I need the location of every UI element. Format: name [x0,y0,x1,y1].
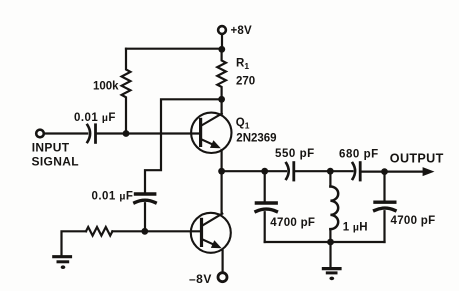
capacitor 0.01uF lower (curved bottom plate) [135,200,155,202]
wire ground corner to resistor [62,231,87,256]
svg-text:+8V: +8V [231,25,253,37]
svg-text:0.01 µF: 0.01 µF [92,190,134,202]
svg-text:SIGNAL: SIGNAL [32,154,79,168]
ground symbol left (middle bar) [58,260,68,263]
transistor Q2 (circle) [191,213,231,253]
node 4700pF right junction [381,168,388,175]
capacitor 680pF (straight plate) [359,163,362,180]
wire 4700pF left bottom lead [264,212,266,242]
node inductor top junction [327,168,334,175]
svg-text:OUTPUT: OUTPUT [390,152,444,166]
svg-text:INPUT: INPUT [32,140,70,154]
wire Q1 emitter down to output node [221,150,223,171]
bottom rail [265,241,385,243]
svg-text:550 pF: 550 pF [275,148,315,160]
node Q1 emitter / output junction [218,168,225,175]
Q2 collector diagonal [202,214,223,226]
svg-text:1 µH: 1 µH [343,222,368,234]
wire bottom node to ground [329,242,331,268]
node 4700pF left junction [261,168,268,175]
resistor R1 270 (zigzag) [217,49,226,99]
ground symbol bottom (middle bar) [327,271,336,274]
feedback wire from collector node to lower 0.01uF cap [145,99,222,192]
svg-text:0.01 µF: 0.01 µF [74,112,116,124]
OUTPUT arrowhead [423,167,435,176]
capacitor C1 0.01uF (straight plate) [94,125,97,143]
wire 4700pF right top lead [383,172,385,201]
-8V terminal [218,273,227,282]
wire Q1 collector [221,99,223,114]
Q1 base bar [199,119,202,145]
wire +8V terminal down to top rail node [221,34,223,49]
svg-text:100k: 100k [93,80,119,92]
transistor Q1 2N2369 (circle) [191,113,231,153]
Q1 collector diagonal [201,114,222,126]
node Q2 base junction [141,228,148,235]
wire Q2 emitter to -8V terminal [222,251,224,273]
inductor 1uH coil [330,187,338,230]
svg-text:4700 pF: 4700 pF [391,215,436,227]
Q1 emitter arrowhead [210,140,221,148]
ground symbol bottom (top bar) [323,267,340,270]
wire lower cap to Q2 base node [144,203,146,231]
Q2 emitter arrowhead [211,240,222,248]
svg-text:–8V: –8V [189,272,212,286]
output line: emitter node to 550pF [222,170,286,172]
wire input terminal to C1 [44,132,87,134]
capacitor 4700pF right (curved bottom plate) [375,208,395,210]
wire 4700pF left top lead [264,171,266,201]
Q2 emitter diagonal [202,239,214,245]
wire output node down to Q2 collector [221,171,223,213]
inductor 1uH bottom lead [329,229,331,242]
capacitor C1 0.01uF (curved plate) [87,125,90,142]
wire C1 to Q1 base [97,132,201,134]
wire 4700pF right bottom lead [383,211,385,242]
svg-text:Q1: Q1 [236,117,250,131]
input terminal [36,130,44,138]
svg-text:270: 270 [236,76,255,88]
capacitor 550pF (curved plate) [286,163,289,179]
ground symbol left (dot) [61,265,66,269]
+8V terminal [218,26,226,34]
node top rail junction [218,46,225,53]
svg-text:680 pF: 680 pF [339,148,379,160]
capacitor 4700pF left (flat top plate) [256,201,276,204]
wire top rail to 100k [126,48,222,50]
capacitor 4700pF right (flat top plate) [375,200,395,203]
ground symbol bottom (dot) [329,277,334,281]
inductor 1uH top lead [329,171,331,186]
node R1 bottom / Q1 collector junction [218,96,225,103]
svg-text:R1: R1 [236,58,249,72]
svg-text:2N2369: 2N2369 [236,133,276,145]
capacitor 680pF (curved plate) [353,163,356,179]
resistor unlabeled (horizontal zigzag) [86,227,112,236]
capacitor 550pF (straight plate) [292,163,295,180]
wire resistor to Q2 base [112,230,201,232]
resistor 100k (zigzag) [122,49,131,134]
capacitor 4700pF left (curved bottom plate) [256,209,276,211]
wire 680pF to output arrow [361,171,424,173]
svg-text:4700 pF: 4700 pF [270,217,315,229]
node bottom ground junction [327,239,334,246]
capacitor 0.01uF lower (flat top plate) [136,192,155,195]
Q1 emitter diagonal [201,139,213,145]
wire 550pF to 680pF [295,170,353,172]
ground symbol left (top bar) [54,255,71,258]
node 100k bottom / base line junction [123,130,130,137]
Q2 base bar [200,219,203,245]
